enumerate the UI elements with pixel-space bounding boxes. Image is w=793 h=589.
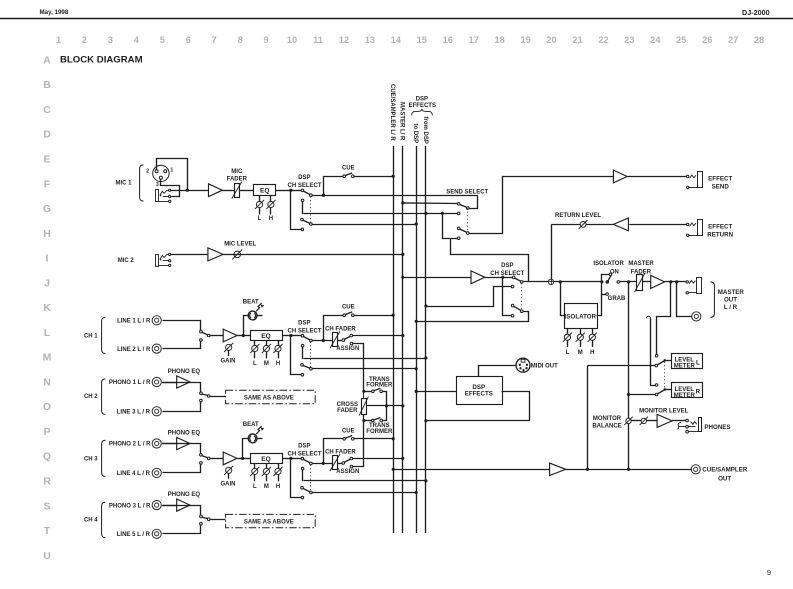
svg-text:9: 9: [767, 568, 771, 577]
svg-text:CH FADER: CH FADER: [325, 449, 356, 455]
svg-text:N: N: [43, 376, 51, 388]
svg-text:L / R: L / R: [724, 304, 738, 311]
svg-text:1: 1: [170, 168, 173, 174]
svg-text:FORMER: FORMER: [366, 429, 393, 435]
svg-text:RETURN LEVEL: RETURN LEVEL: [555, 213, 601, 219]
svg-text:GAIN: GAIN: [221, 481, 236, 487]
svg-text:CH SELECT: CH SELECT: [287, 183, 321, 189]
svg-text:METER: METER: [674, 364, 696, 370]
svg-text:MIDI OUT: MIDI OUT: [531, 364, 558, 370]
svg-text:D: D: [43, 129, 51, 141]
svg-text:ISOLATOR: ISOLATOR: [593, 261, 624, 267]
svg-text:BALANCE: BALANCE: [592, 423, 621, 429]
svg-text:4: 4: [134, 35, 140, 45]
svg-text:S: S: [43, 500, 50, 512]
svg-text:O: O: [43, 401, 51, 413]
svg-text:LINE 1 L / R: LINE 1 L / R: [117, 319, 151, 325]
svg-text:CH FADER: CH FADER: [325, 327, 356, 333]
svg-text:14: 14: [391, 35, 402, 45]
svg-text:MASTER: MASTER: [718, 289, 745, 296]
svg-text:EQ: EQ: [261, 456, 270, 463]
svg-text:DJ-2000: DJ-2000: [742, 8, 770, 17]
svg-text:PHONO 2 L / R: PHONO 2 L / R: [109, 442, 151, 448]
svg-text:9: 9: [264, 35, 269, 45]
svg-text:H: H: [276, 361, 280, 367]
svg-text:ISOLATOR: ISOLATOR: [565, 313, 597, 320]
svg-text:6: 6: [186, 35, 191, 45]
svg-text:BEAT: BEAT: [243, 299, 259, 305]
svg-text:LINE 3 L / R: LINE 3 L / R: [117, 410, 151, 416]
svg-text:GRAB: GRAB: [608, 296, 626, 302]
svg-text:L: L: [566, 350, 570, 356]
svg-text:MASTER: MASTER: [628, 261, 654, 267]
svg-text:LINE 2 L / R: LINE 2 L / R: [117, 347, 151, 353]
svg-text:ON: ON: [610, 269, 619, 275]
svg-text:M: M: [578, 350, 583, 356]
svg-text:24: 24: [650, 35, 661, 45]
svg-text:15: 15: [417, 35, 427, 45]
svg-text:P: P: [43, 426, 50, 438]
svg-text:BEAT: BEAT: [243, 422, 259, 428]
svg-text:10: 10: [287, 35, 297, 45]
svg-text:CH SELECT: CH SELECT: [287, 451, 321, 457]
svg-text:13: 13: [365, 35, 375, 45]
svg-text:11: 11: [313, 35, 323, 45]
svg-text:EFFECTS: EFFECTS: [465, 391, 493, 398]
svg-text:PHONO 1 L / R: PHONO 1 L / R: [109, 380, 151, 386]
svg-text:25: 25: [676, 35, 686, 45]
svg-text:May, 1998: May, 1998: [40, 9, 69, 16]
svg-text:CH SELECT: CH SELECT: [287, 329, 321, 335]
svg-text:L: L: [253, 484, 257, 490]
svg-text:H: H: [269, 216, 273, 222]
svg-text:2: 2: [82, 35, 87, 45]
svg-text:CUE: CUE: [342, 166, 355, 172]
svg-text:H: H: [43, 228, 51, 240]
svg-text:CH 3: CH 3: [84, 457, 98, 463]
svg-text:EFFECT: EFFECT: [708, 176, 732, 183]
svg-text:ASSIGN: ASSIGN: [336, 469, 359, 475]
svg-text:DSP: DSP: [298, 175, 310, 181]
svg-text:METER: METER: [674, 393, 696, 399]
svg-text:G: G: [43, 203, 51, 215]
svg-text:PHONES: PHONES: [704, 424, 730, 431]
svg-text:19: 19: [520, 35, 530, 45]
svg-text:3: 3: [156, 182, 159, 188]
svg-text:17: 17: [469, 35, 479, 45]
svg-text:PHONO EQ: PHONO EQ: [168, 431, 201, 437]
svg-text:L: L: [696, 359, 700, 366]
svg-text:1: 1: [56, 35, 61, 45]
svg-text:LINE 4 L / R: LINE 4 L / R: [117, 471, 151, 477]
svg-text:R: R: [696, 389, 701, 396]
svg-text:BLOCK DIAGRAM: BLOCK DIAGRAM: [60, 55, 143, 66]
svg-text:23: 23: [624, 35, 634, 45]
svg-text:DSP: DSP: [501, 263, 513, 269]
svg-text:FADER: FADER: [227, 176, 248, 182]
svg-text:EFFECT: EFFECT: [708, 223, 732, 230]
svg-text:EQ: EQ: [260, 188, 269, 195]
svg-text:E: E: [43, 153, 50, 165]
svg-text:Q: Q: [43, 451, 51, 463]
svg-text:MONITOR: MONITOR: [593, 416, 622, 422]
svg-text:CH SELECT: CH SELECT: [490, 271, 524, 277]
svg-text:SEND SELECT: SEND SELECT: [446, 190, 488, 196]
svg-text:K: K: [43, 302, 51, 314]
svg-text:H: H: [590, 350, 594, 356]
svg-text:R: R: [43, 475, 51, 487]
svg-text:DSP: DSP: [416, 97, 428, 103]
svg-text:20: 20: [546, 35, 556, 45]
svg-text:M: M: [43, 352, 52, 364]
svg-text:L: L: [258, 216, 262, 222]
svg-text:from DSP: from DSP: [422, 117, 428, 144]
svg-text:RETURN: RETURN: [707, 232, 733, 239]
svg-text:SAME AS ABOVE: SAME AS ABOVE: [244, 396, 294, 402]
svg-text:21: 21: [572, 35, 582, 45]
svg-text:EFFECTS: EFFECTS: [409, 103, 436, 109]
svg-text:PHONO 3 L / R: PHONO 3 L / R: [109, 503, 151, 509]
svg-text:27: 27: [728, 35, 738, 45]
svg-text:18: 18: [495, 35, 505, 45]
svg-text:DSP: DSP: [298, 321, 310, 327]
svg-text:I: I: [46, 253, 49, 265]
svg-text:26: 26: [702, 35, 712, 45]
svg-text:LINE 5 L / R: LINE 5 L / R: [117, 532, 151, 538]
svg-text:DSP: DSP: [298, 443, 310, 449]
svg-text:CUE: CUE: [342, 428, 355, 434]
svg-text:J: J: [44, 277, 50, 289]
svg-text:SEND: SEND: [712, 184, 730, 191]
svg-text:EQ: EQ: [261, 333, 270, 340]
svg-text:FORMER: FORMER: [366, 383, 393, 389]
svg-text:22: 22: [598, 35, 608, 45]
svg-text:28: 28: [754, 35, 764, 45]
svg-text:OUT: OUT: [718, 476, 731, 483]
svg-text:2: 2: [146, 168, 149, 174]
svg-text:SAME AS ABOVE: SAME AS ABOVE: [244, 520, 294, 526]
svg-text:MASTER L/ R: MASTER L/ R: [399, 102, 405, 141]
svg-text:MIC LEVEL: MIC LEVEL: [224, 242, 256, 248]
svg-text:MIC 1: MIC 1: [115, 181, 132, 187]
svg-text:B: B: [43, 79, 51, 91]
svg-text:5: 5: [160, 35, 165, 45]
svg-text:MIC: MIC: [231, 169, 243, 175]
svg-text:to DSP: to DSP: [412, 124, 418, 144]
svg-text:OUT: OUT: [724, 296, 737, 303]
svg-text:C: C: [43, 104, 51, 116]
svg-text:7: 7: [212, 35, 217, 45]
svg-text:CUE: CUE: [342, 305, 355, 311]
svg-text:8: 8: [238, 35, 243, 45]
svg-text:U: U: [43, 550, 51, 562]
svg-text:M: M: [264, 361, 269, 367]
svg-text:MIC 2: MIC 2: [118, 258, 135, 264]
svg-text:12: 12: [339, 35, 349, 45]
svg-text:CUE/SAMPLER: CUE/SAMPLER: [702, 467, 748, 474]
svg-text:H: H: [276, 484, 280, 490]
svg-text:MONITOR LEVEL: MONITOR LEVEL: [639, 409, 689, 415]
svg-text:L: L: [44, 327, 51, 339]
svg-text:CH 2: CH 2: [84, 394, 98, 400]
svg-text:GAIN: GAIN: [221, 359, 236, 365]
svg-text:ASSIGN: ASSIGN: [336, 346, 359, 352]
svg-text:PHONO EQ: PHONO EQ: [168, 492, 201, 498]
svg-text:CH 4: CH 4: [84, 517, 98, 523]
svg-text:FADER: FADER: [337, 408, 358, 414]
svg-text:M: M: [264, 484, 269, 490]
svg-text:A: A: [43, 54, 51, 66]
svg-text:3: 3: [108, 35, 113, 45]
svg-text:16: 16: [443, 35, 453, 45]
svg-text:CH 1: CH 1: [84, 334, 98, 340]
svg-text:CUE/SAMPLER L/ R: CUE/SAMPLER L/ R: [389, 84, 395, 141]
svg-text:PHONO EQ: PHONO EQ: [168, 369, 201, 375]
svg-text:F: F: [44, 178, 51, 190]
svg-text:L: L: [253, 361, 257, 367]
svg-text:T: T: [44, 525, 51, 537]
